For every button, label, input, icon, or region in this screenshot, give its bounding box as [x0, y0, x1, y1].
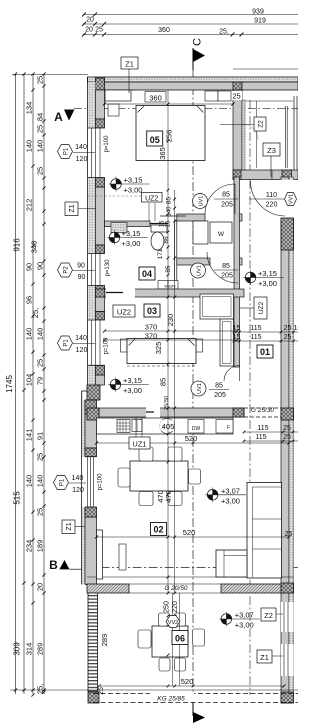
- svg-text:UZ2: UZ2: [258, 301, 265, 314]
- label VV2 hexagon: [166, 616, 180, 628]
- nightstands room 05: [205, 91, 218, 101]
- terrace width dimension 520: [99, 685, 284, 687]
- terrace bottom-left corner block: [88, 692, 99, 703]
- fridge: [216, 420, 233, 434]
- svg-text:85: 85: [215, 383, 223, 390]
- svg-text:370: 370: [145, 332, 158, 341]
- svg-text:25: 25: [98, 687, 105, 695]
- label Z1 left lower with leader: [62, 520, 75, 534]
- elevation marker room03 +3,15/+3,00: [108, 376, 149, 395]
- room number boxes: [147, 131, 163, 146]
- terrace bottom dimension line: [88, 689, 298, 691]
- svg-text:Z1: Z1: [125, 60, 134, 69]
- svg-text:DW: DW: [192, 426, 201, 432]
- svg-text:96: 96: [25, 296, 34, 304]
- svg-text:90: 90: [77, 263, 85, 270]
- svg-text:348: 348: [30, 241, 39, 254]
- svg-text:UZ2: UZ2: [117, 308, 131, 317]
- svg-text:25,: 25,: [219, 29, 229, 36]
- svg-text:06: 06: [175, 634, 185, 644]
- svg-text:115: 115: [250, 325, 261, 332]
- svg-text:85: 85: [165, 265, 172, 273]
- svg-text:86: 86: [163, 236, 170, 244]
- right interior load-bearing wall (x281-293): [281, 177, 289, 703]
- label UV1 circle lower: [191, 263, 206, 278]
- left exterior wall: step-out junction crosshatch: [87, 385, 100, 400]
- label UZ2 rotated room01: [254, 297, 267, 319]
- svg-text:+3,15: +3,15: [124, 176, 143, 185]
- svg-text:85: 85: [166, 197, 173, 205]
- washing machine boxes in hall: [193, 221, 208, 244]
- svg-text:370: 370: [145, 323, 158, 332]
- svg-text:25: 25: [36, 125, 45, 133]
- svg-text:115: 115: [255, 434, 266, 441]
- svg-text:C: C: [192, 38, 204, 46]
- svg-text:p=100: p=100: [104, 135, 110, 153]
- section line C vertical dash-dot: [192, 70, 194, 708]
- svg-text:140: 140: [75, 144, 87, 151]
- interior vertical dimension chain lines: [167, 90, 169, 593]
- svg-text:250: 250: [164, 601, 171, 613]
- washbasin pair bathroom: [158, 281, 168, 290]
- svg-text:289: 289: [100, 634, 109, 647]
- svg-text:WMaPk: WMaPk: [164, 285, 176, 289]
- parapet hexagon P1 upper: [58, 145, 73, 159]
- window Z1 in right wall: [281, 644, 294, 676]
- TV sideboard along left wall: [97, 530, 103, 579]
- svg-text:309: 309: [13, 642, 22, 656]
- svg-text:25: 25: [95, 27, 103, 34]
- left wall lower crosshatch piers: [85, 400, 97, 414]
- svg-text:140: 140: [36, 328, 45, 341]
- window Z2 in right wall: [281, 602, 294, 632]
- svg-text:+3,00: +3,00: [123, 386, 142, 395]
- svg-text:25: 25: [284, 334, 292, 341]
- svg-text:25: 25: [36, 76, 45, 84]
- svg-text:205: 205: [221, 202, 233, 209]
- svg-text:15: 15: [166, 220, 172, 227]
- svg-text:90: 90: [36, 262, 45, 270]
- svg-text:91: 91: [36, 432, 45, 440]
- svg-text:25: 25: [36, 508, 45, 516]
- kitchen width dimension 520: [97, 442, 290, 444]
- svg-text:G 25/30: G 25/30: [251, 407, 275, 414]
- label Z1 top with leader: [121, 57, 138, 69]
- svg-text:140: 140: [75, 335, 87, 342]
- svg-text:365: 365: [158, 147, 167, 160]
- svg-text:220: 220: [172, 601, 179, 613]
- terrace left railing (striped): [88, 593, 98, 692]
- svg-text:520: 520: [183, 528, 196, 537]
- svg-text:03: 03: [147, 306, 157, 316]
- label VV1 circle (clipped): [285, 193, 297, 206]
- svg-text:25: 25: [36, 359, 45, 367]
- svg-text:360: 360: [158, 27, 170, 34]
- svg-text:Z3: Z3: [267, 146, 276, 155]
- left exterior wall lower outer line: [82, 390, 88, 392]
- bathroom / room03 dividing wall y289-297: [96, 289, 245, 297]
- door label UV1 room03: [191, 381, 206, 396]
- svg-text:25,: 25,: [36, 684, 45, 694]
- KG 25/85 dashed foundation band: [93, 693, 298, 695]
- svg-text:520: 520: [181, 677, 194, 686]
- svg-text:25: 25: [283, 434, 291, 441]
- svg-text:Z2: Z2: [264, 611, 273, 620]
- svg-text:939: 939: [252, 9, 264, 16]
- svg-text:141: 141: [25, 429, 34, 442]
- svg-text:1745: 1745: [5, 375, 14, 393]
- sliding glass opening VV2 lines: [129, 583, 221, 585]
- parapet hexagon P2: [58, 263, 73, 277]
- door UV1b swing arc (into lower hall): [207, 252, 238, 283]
- svg-text:120: 120: [72, 487, 84, 494]
- svg-text:UV1: UV1: [199, 196, 205, 207]
- svg-text:15: 15: [233, 334, 241, 341]
- svg-text:115: 115: [257, 425, 268, 432]
- room02 bottom edge line: [87, 576, 293, 578]
- label Z1 left upper with leader: [65, 202, 78, 216]
- door UV1a swing arc (into room 05): [205, 184, 235, 214]
- closet bottom wall (y170-177): [233, 170, 298, 180]
- label Z2 terrace with leader: [261, 608, 276, 621]
- left exterior wall upper: concrete segments: [96, 90, 105, 119]
- nightstands room 03: [121, 339, 128, 352]
- svg-text:02: 02: [153, 525, 163, 535]
- roof edge line over closet: [233, 68, 298, 70]
- svg-text:85: 85: [222, 263, 230, 270]
- window P1 (140/120) lower left wall: [82, 457, 97, 507]
- svg-text:Z2: Z2: [258, 120, 265, 128]
- svg-text:120: 120: [76, 156, 88, 163]
- svg-text:15: 15: [233, 325, 241, 332]
- svg-text:20: 20: [85, 27, 93, 34]
- svg-text:p=130: p=130: [105, 259, 111, 277]
- beam G20/50 hatched band right part: [221, 584, 281, 593]
- bathroom top wall y221-226.5: [105, 221, 151, 227]
- svg-text:01: 01: [260, 347, 270, 357]
- hall bottom wall segments: [177, 258, 210, 265]
- svg-text:25: 25: [232, 92, 240, 101]
- svg-text:Z1: Z1: [66, 522, 73, 530]
- svg-text:520: 520: [185, 434, 198, 443]
- svg-text:P1: P1: [60, 478, 66, 486]
- svg-text:W: W: [218, 231, 225, 238]
- sofa chaise part (along right wall): [247, 483, 282, 579]
- svg-text:140: 140: [36, 140, 45, 153]
- bathroom/hall thin partition: [175, 221, 177, 297]
- room 05 width dimension: [105, 103, 234, 105]
- parapet hexagon P1 lower: [54, 476, 69, 490]
- svg-text:79: 79: [36, 377, 45, 385]
- top dimension chain lines: [83, 15, 298, 35]
- svg-text:85: 85: [222, 192, 230, 199]
- svg-text:104: 104: [25, 374, 34, 387]
- svg-text:+3,15: +3,15: [258, 269, 277, 278]
- svg-text:KG 25/85: KG 25/85: [157, 696, 185, 703]
- section marker C bottom flag: [192, 700, 194, 716]
- parapet hexagon P1 middle: [58, 336, 73, 350]
- svg-text:325: 325: [154, 342, 163, 355]
- svg-text:04: 04: [142, 269, 152, 279]
- elevation marker terrace +3,07/+3,00: [219, 611, 260, 630]
- door VV1 swing arc (into room 01): [251, 181, 286, 216]
- svg-text:515: 515: [13, 491, 22, 505]
- left wall crosshatch piers: [96, 119, 105, 128]
- wall thickness text 25: [230, 91, 242, 100]
- svg-text:20: 20: [36, 583, 45, 591]
- door room01 swing arc: [224, 366, 240, 382]
- svg-text:140: 140: [36, 475, 45, 488]
- chairs around dining table: [118, 447, 201, 506]
- svg-text:25: 25: [284, 325, 292, 332]
- section marker B with dash-dot section line: [85, 567, 298, 569]
- svg-text:140: 140: [72, 475, 84, 482]
- closet door arc: [242, 124, 258, 140]
- hob circle with 405 label: [160, 419, 175, 434]
- svg-text:A: A: [54, 110, 63, 124]
- svg-text:230: 230: [166, 314, 175, 327]
- top exterior wall: concrete band: [96, 82, 298, 90]
- room 02 width dimension 520: [97, 536, 290, 538]
- room 03 width dimensions: [105, 330, 238, 332]
- dim text 360 in white box: [145, 92, 166, 103]
- svg-text:171: 171: [157, 248, 164, 259]
- dining table room 02: [130, 461, 188, 491]
- bed room 05: [136, 106, 205, 161]
- niche / low cabinet under window Z1: [105, 90, 131, 101]
- svg-text:85: 85: [159, 378, 168, 386]
- svg-text:919: 919: [254, 18, 266, 25]
- elevation marker hall +3,15/+3,00: [243, 269, 284, 288]
- stove grid: [117, 420, 130, 433]
- svg-text:Z1: Z1: [260, 653, 269, 662]
- dims 85/205 upper: [214, 198, 238, 200]
- label Z1 terrace with leader: [257, 650, 272, 663]
- right side dimension rows kitchen: [244, 431, 298, 433]
- radiator room02: [119, 544, 126, 570]
- svg-text:25: 25: [283, 425, 291, 432]
- sliding door gap room03: [106, 289, 135, 298]
- svg-text:140: 140: [25, 140, 34, 153]
- svg-text:+3,00: +3,00: [258, 279, 277, 288]
- svg-text:+3,07: +3,07: [235, 611, 254, 620]
- svg-text:289: 289: [36, 643, 45, 656]
- svg-text:220: 220: [266, 202, 278, 209]
- svg-text:140: 140: [167, 206, 173, 217]
- window P1 (140/120) upper left wall: [88, 128, 105, 365]
- svg-text:25: 25: [36, 453, 45, 461]
- top-left corner crosshatch block: [96, 78, 105, 90]
- left exterior wall upper: insulation strip: [88, 82, 96, 391]
- svg-text:B: B: [49, 558, 58, 572]
- hall top wall segments: [177, 214, 205, 221]
- svg-text:140: 140: [25, 328, 34, 341]
- sliding door UZ2 panel: [150, 223, 168, 225]
- svg-text:UV1: UV1: [197, 265, 203, 276]
- label UV1 circle upper: [193, 194, 208, 209]
- svg-text:110: 110: [266, 192, 277, 199]
- sofa main part (bottom): [216, 550, 247, 577]
- svg-text:F: F: [227, 425, 230, 431]
- dishwasher: [188, 420, 204, 434]
- wall between hall/room01 x234-239.5: [234, 177, 240, 367]
- building axis vertical dash-dot: [249, 100, 251, 695]
- WC toilet: [151, 225, 167, 232]
- section marker A with dash-dot section line: [74, 107, 298, 109]
- svg-text:205: 205: [214, 392, 226, 399]
- svg-text:212: 212: [25, 199, 34, 212]
- dashed ceiling line room05: [87, 195, 160, 197]
- svg-text:VV2: VV2: [168, 620, 178, 626]
- svg-text:140: 140: [25, 475, 34, 488]
- svg-text:+3,00: +3,00: [235, 621, 254, 630]
- svg-text:134: 134: [25, 102, 34, 115]
- svg-text:20: 20: [86, 17, 94, 24]
- entrance door opening VV1 in right wall: [280, 180, 294, 218]
- svg-text:189: 189: [36, 540, 45, 553]
- svg-text:10: 10: [294, 325, 298, 332]
- svg-text:120: 120: [76, 347, 88, 354]
- svg-text:25: 25: [285, 531, 293, 538]
- kitchen dividing wall y408-417: [99, 408, 244, 417]
- svg-text:UZ1: UZ1: [132, 440, 146, 449]
- label Z3 closet: [263, 143, 280, 156]
- svg-text:90: 90: [25, 263, 34, 271]
- svg-text:UZ2: UZ2: [145, 195, 158, 202]
- svg-text:p=100: p=100: [104, 337, 110, 355]
- svg-text:314: 314: [25, 643, 34, 656]
- svg-text:25: 25: [36, 167, 45, 175]
- elevation marker bathroom +3,15/+3,00: [107, 229, 148, 248]
- svg-text:UV1: UV1: [197, 383, 203, 394]
- svg-text:90: 90: [78, 274, 86, 281]
- cabinet top-left room 05: [108, 104, 119, 116]
- right side dimension rows 15 115 25: [233, 331, 298, 333]
- svg-text:205: 205: [221, 273, 233, 280]
- dims 110/220: [249, 198, 285, 200]
- svg-text:84: 84: [36, 113, 45, 121]
- svg-text:916: 916: [13, 238, 22, 252]
- svg-text:P1: P1: [64, 147, 70, 155]
- svg-text:25/30: 25/30: [164, 396, 170, 410]
- interior wall between room 05 and closet (x233-242): [233, 90, 242, 170]
- svg-text:Z1: Z1: [69, 204, 76, 212]
- top exterior wall: insulation band: [88, 77, 299, 82]
- svg-text:+3,00: +3,00: [122, 239, 141, 248]
- terrace table room 06: [152, 626, 188, 657]
- kitchen counter: [97, 418, 234, 434]
- svg-text:p=100: p=100: [98, 473, 104, 491]
- closet wardrobe dashed shelves: [245, 100, 293, 102]
- svg-text:115: 115: [250, 334, 261, 341]
- label Z2 rotated closet: [254, 117, 266, 131]
- elevation marker living +3,07/+3,00: [205, 486, 246, 505]
- svg-text:P1: P1: [64, 339, 70, 347]
- svg-text:+3,15: +3,15: [122, 229, 141, 238]
- svg-text:VV1: VV1: [289, 194, 295, 204]
- beam G20/50 hatched band left part: [87, 584, 129, 593]
- beam G25/30 dashed continuation: [244, 407, 281, 409]
- elevation marker room05 +3,15/+3,00: [109, 176, 150, 195]
- label UZ2 bathroom door: [142, 193, 163, 203]
- wardrobe room03 L-shape: [200, 294, 234, 319]
- dims 85/205 lower: [214, 269, 238, 271]
- svg-text:+3,00: +3,00: [221, 496, 240, 505]
- svg-text:470: 470: [164, 490, 173, 503]
- svg-text:25,: 25,: [31, 308, 40, 318]
- sink double: [132, 420, 142, 432]
- svg-text:+3,15: +3,15: [123, 376, 142, 385]
- svg-text:P2: P2: [64, 266, 70, 274]
- svg-text:+3,00: +3,00: [124, 186, 143, 195]
- shower drain square: [111, 223, 127, 233]
- svg-text:360: 360: [149, 94, 162, 103]
- left exterior wall lower concrete segments: [85, 414, 97, 448]
- bed room 03: [127, 339, 196, 364]
- label UZ1 kitchen door: [129, 437, 150, 449]
- svg-text:+3,07: +3,07: [221, 486, 240, 495]
- label UZ2 room03 door: [113, 305, 135, 317]
- closet right boundary lines: [293, 96, 295, 170]
- svg-text:234: 234: [25, 540, 34, 553]
- left dimension chain lines: [10, 74, 88, 694]
- svg-text:256: 256: [165, 130, 174, 143]
- sliding door gap UZ1: [146, 408, 160, 418]
- svg-text:05: 05: [150, 135, 160, 145]
